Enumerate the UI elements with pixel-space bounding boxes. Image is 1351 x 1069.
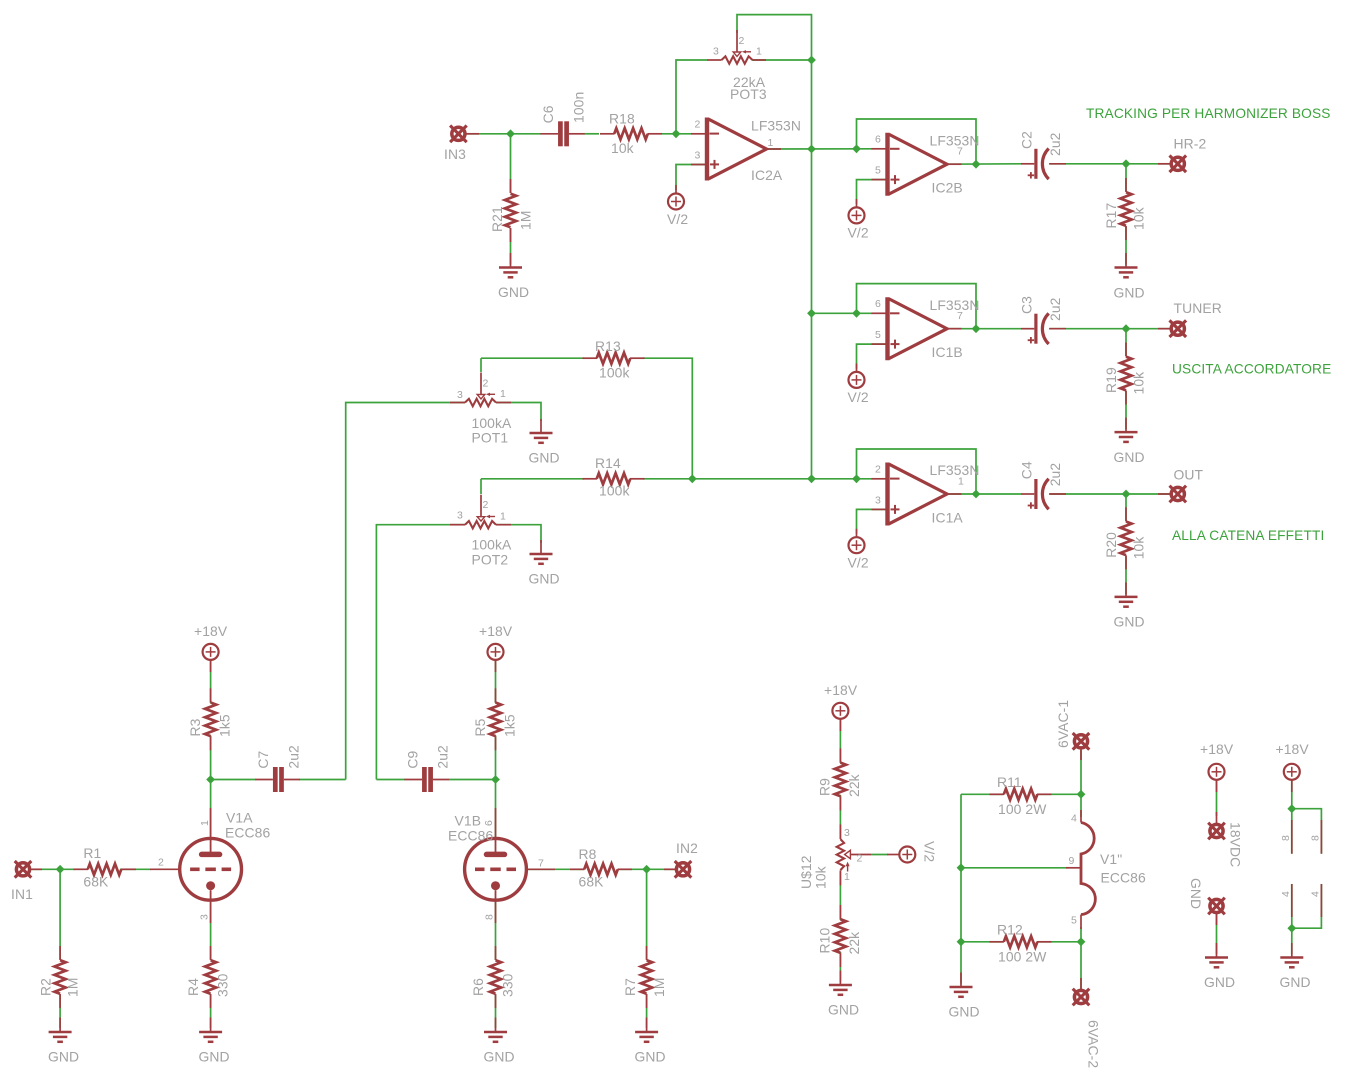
- junction V1A plate node: [206, 775, 215, 784]
- svg-text:+18V: +18V: [1200, 741, 1234, 757]
- svg-text:2u2: 2u2: [434, 745, 450, 769]
- supply +18V for V1B: [479, 623, 513, 672]
- svg-text:3: 3: [695, 150, 701, 162]
- svg-text:1M: 1M: [518, 211, 534, 231]
- svg-text:2: 2: [158, 856, 164, 868]
- wire IC2B +input from V/2: [857, 180, 888, 204]
- wire POT3 pin1 to output bus: [752, 59, 812, 61]
- svg-text:R7: R7: [622, 978, 638, 996]
- junction IC1B inverting input: [852, 309, 861, 318]
- svg-text:R2: R2: [38, 978, 54, 996]
- junction IC1A bus: [807, 474, 816, 483]
- svg-text:3: 3: [844, 827, 850, 839]
- wire R19 branch: [1125, 329, 1127, 429]
- junction R12 / heater pin5: [1077, 937, 1086, 946]
- svg-text:C3: C3: [1019, 296, 1035, 314]
- svg-text:R9: R9: [817, 778, 833, 796]
- pad 18VDC: [1208, 812, 1243, 867]
- junction at IN3 / R21: [506, 129, 515, 138]
- resistor R2 1M: [38, 946, 81, 1008]
- wire R12 node to 6VAC-2 pad: [1080, 942, 1082, 990]
- wire R2 branch: [59, 869, 61, 1028]
- svg-text:6VAC-2: 6VAC-2: [1086, 1020, 1102, 1068]
- svg-text:68K: 68K: [83, 873, 109, 889]
- pin 4 stub left: [1280, 884, 1292, 917]
- svg-text:C4: C4: [1019, 461, 1035, 479]
- ground GND below R7: [635, 1018, 666, 1065]
- svg-text:R12: R12: [997, 922, 1023, 938]
- wire POT2 column to C9: [376, 779, 405, 781]
- wire R3 to plate node: [210, 736, 212, 780]
- svg-text:1M: 1M: [65, 978, 81, 998]
- svg-text:2: 2: [483, 378, 489, 390]
- wire POT2 pin1 to ground: [496, 525, 541, 543]
- svg-text:C6: C6: [540, 105, 556, 123]
- junction IC1A output: [972, 490, 981, 499]
- svg-text:+18V: +18V: [1276, 741, 1310, 757]
- ground GND heater: [949, 973, 980, 1020]
- junction IC2A output on bus: [807, 145, 816, 154]
- capacitor C4 2u2: [1019, 461, 1067, 509]
- wire heater pin5: [1080, 927, 1082, 942]
- wire R13 row: [481, 358, 692, 479]
- wire POT3 feedback loop: [737, 15, 812, 479]
- svg-text:IC2A: IC2A: [751, 167, 783, 183]
- wire +18V to R3: [210, 660, 212, 703]
- resistor R9 22k: [817, 748, 863, 810]
- svg-text:22k: 22k: [846, 774, 862, 797]
- wire heater left rail: [960, 794, 962, 983]
- svg-text:R8: R8: [579, 846, 597, 862]
- wire bus link IC1A: [812, 478, 873, 480]
- ground GND POT1: [529, 419, 560, 466]
- wire plate node to C7: [211, 779, 256, 781]
- wire 6VAC-1 pad to R11 node: [1080, 750, 1082, 794]
- net label USCITA ACCORDATORE: [1172, 362, 1331, 377]
- svg-text:R19: R19: [1103, 367, 1119, 393]
- svg-text:R11: R11: [997, 774, 1022, 790]
- svg-text:TUNER: TUNER: [1174, 300, 1222, 316]
- svg-text:V1A: V1A: [226, 810, 253, 826]
- triode V1B ECC86: [448, 808, 555, 923]
- wire plate node to V1B anode: [495, 780, 497, 839]
- ground GND POT2: [529, 540, 560, 587]
- resistor R13 100k: [583, 338, 645, 381]
- wire trimmer wiper to V/2: [871, 854, 888, 856]
- op-amp IC2B LF353N: [872, 132, 980, 195]
- capacitor C9 2u2: [404, 745, 450, 792]
- svg-text:100n: 100n: [570, 92, 586, 123]
- wire POT2 wiper riser: [480, 479, 482, 494]
- svg-text:100kA: 100kA: [472, 537, 513, 553]
- svg-text:3: 3: [457, 389, 463, 401]
- svg-text:2u2: 2u2: [1047, 297, 1063, 321]
- wire R12 row: [961, 941, 1081, 943]
- svg-text:10k: 10k: [1131, 207, 1147, 230]
- svg-text:POT1: POT1: [472, 430, 509, 446]
- svg-text:6VAC-1: 6VAC-1: [1055, 700, 1071, 748]
- svg-text:LF353N: LF353N: [930, 297, 980, 313]
- wire IC1B output to C3: [948, 328, 1022, 330]
- wire V1B cathode to R6: [495, 900, 497, 1028]
- wire R7 branch: [646, 869, 648, 1028]
- wire C7 to POT1 column: [299, 779, 346, 781]
- resistor R6 330: [470, 946, 516, 1008]
- svg-text:ECC86: ECC86: [448, 828, 493, 844]
- svg-text:+18V: +18V: [824, 682, 858, 698]
- svg-text:GND: GND: [1188, 878, 1204, 909]
- op-amp IC1A LF353N: [872, 462, 980, 525]
- capacitor C3 2u2: [1019, 296, 1067, 344]
- svg-text:4: 4: [1071, 813, 1077, 825]
- svg-text:R20: R20: [1103, 532, 1119, 558]
- pad HR-2: [1158, 135, 1206, 172]
- resistor R14 100k: [583, 455, 645, 499]
- svg-text:5: 5: [875, 329, 881, 341]
- wire R21 branch to ground: [510, 134, 512, 265]
- resistor R19 10k: [1103, 343, 1147, 405]
- svg-text:6: 6: [483, 820, 495, 826]
- svg-text:+18V: +18V: [194, 623, 228, 639]
- junction IC2B inverting input: [852, 144, 861, 153]
- junction HR-2 / R17: [1122, 159, 1131, 168]
- svg-text:R10: R10: [817, 928, 833, 954]
- svg-text:IC1A: IC1A: [932, 509, 964, 525]
- junction R11 / heater pin4: [1077, 790, 1086, 799]
- svg-text:HR-2: HR-2: [1174, 135, 1207, 151]
- ground GND below R21: [498, 253, 529, 300]
- junction IC1A inverting input: [852, 474, 861, 483]
- wire IC2B feedback loop: [857, 119, 977, 164]
- svg-text:GND: GND: [1114, 614, 1145, 630]
- svg-text:GND: GND: [828, 1002, 859, 1018]
- resistor R18 10k: [600, 111, 662, 157]
- svg-text:R21: R21: [489, 206, 505, 232]
- junction IC supply pins 8: [1287, 804, 1296, 813]
- wire R10 to ground: [839, 952, 841, 982]
- supply +18V for 18VDC pad: [1200, 741, 1234, 792]
- junction IC2B output: [972, 160, 981, 169]
- svg-text:3: 3: [875, 494, 881, 506]
- svg-text:18VDC: 18VDC: [1228, 822, 1244, 867]
- wire R11 row: [961, 793, 1081, 795]
- wire POT1 wiper riser: [480, 358, 482, 372]
- junction V1B plate node: [491, 775, 500, 784]
- svg-text:2: 2: [875, 464, 881, 476]
- resistor R1 68K: [74, 845, 137, 889]
- ground GND below R2: [48, 1018, 79, 1065]
- junction R8 / R7: [642, 865, 651, 874]
- wire POT1 pin1 to ground: [496, 403, 541, 422]
- supply +18V for bias chain: [824, 682, 858, 731]
- svg-text:R13: R13: [595, 338, 621, 354]
- wire IC1B feedback loop: [857, 284, 977, 329]
- wire IC1B +input from V/2: [857, 344, 888, 368]
- wire V1A cathode to R4: [210, 900, 212, 1028]
- resistor R4 330: [185, 946, 231, 1008]
- resistor R8 68K: [570, 846, 632, 889]
- svg-text:V/2: V/2: [667, 211, 688, 227]
- wire C3 to TUNER pad: [1049, 328, 1170, 330]
- svg-text:1k5: 1k5: [217, 714, 233, 737]
- supply V/2 for IC2B: [848, 199, 869, 241]
- pad GND input: [1188, 878, 1225, 925]
- svg-text:TRACKING PER HARMONIZER BOSS: TRACKING PER HARMONIZER BOSS: [1086, 106, 1331, 121]
- net label TRACKING PER HARMONIZER BOSS: [1086, 106, 1331, 121]
- svg-text:100 2W: 100 2W: [998, 801, 1047, 817]
- svg-text:GND: GND: [1114, 284, 1145, 300]
- op-amp IC1B LF353N: [872, 297, 980, 360]
- net label ALLA CATENA EFFETTI: [1172, 528, 1324, 543]
- svg-text:V/2: V/2: [922, 841, 938, 862]
- wire trimmer to R10: [839, 871, 841, 920]
- svg-text:GND: GND: [635, 1049, 666, 1065]
- supply +18V for IC power: [1276, 741, 1310, 792]
- svg-text:1: 1: [500, 511, 506, 523]
- resistor R20 10k: [1103, 507, 1147, 569]
- junction IC1B output: [972, 324, 981, 333]
- wire bus link IC1B: [812, 312, 873, 314]
- svg-text:1: 1: [844, 871, 850, 883]
- resistor R10 22k: [817, 905, 863, 967]
- svg-text:V1": V1": [1100, 851, 1122, 867]
- svg-text:3: 3: [199, 914, 211, 920]
- wire R9 to trimmer: [839, 795, 841, 838]
- wire POT2 pin3 to C9 column: [376, 525, 465, 780]
- pad IN3: [444, 126, 479, 163]
- pad IN1: [11, 861, 42, 902]
- svg-text:R17: R17: [1103, 203, 1119, 229]
- svg-text:ECC86: ECC86: [1101, 870, 1146, 886]
- resistor R5 1k5: [472, 688, 518, 750]
- svg-text:GND: GND: [498, 284, 529, 300]
- supply V/2 for IC2A: [667, 185, 688, 227]
- svg-text:GND: GND: [529, 571, 560, 587]
- svg-text:R18: R18: [609, 111, 635, 127]
- svg-text:2: 2: [857, 853, 863, 865]
- junction IC2A inverting input: [672, 129, 681, 138]
- svg-text:2u2: 2u2: [285, 745, 301, 769]
- wire IC1A +input from V/2: [857, 509, 888, 533]
- supply V/2 from trimmer: [887, 841, 938, 863]
- svg-text:5: 5: [875, 165, 881, 177]
- ground GND below R20: [1114, 582, 1145, 629]
- svg-text:IN1: IN1: [11, 886, 33, 902]
- pad 6VAC-2: [1073, 978, 1102, 1068]
- svg-text:GND: GND: [48, 1049, 79, 1065]
- svg-text:100 2W: 100 2W: [998, 949, 1047, 965]
- pin 8 stub left: [1280, 820, 1292, 854]
- svg-text:1: 1: [756, 45, 762, 57]
- triode V1A ECC86: [150, 808, 270, 923]
- pad TUNER: [1158, 300, 1222, 337]
- wire plate node to V1A anode: [210, 780, 212, 839]
- svg-text:LF353N: LF353N: [930, 132, 980, 148]
- junction R12 left: [957, 937, 966, 946]
- svg-text:V/2: V/2: [848, 389, 869, 405]
- wire +18V to R9: [839, 719, 841, 763]
- svg-text:V/2: V/2: [848, 225, 869, 241]
- wire IC2A inverting node up to POT3 pin3: [676, 60, 707, 134]
- svg-text:10k: 10k: [1131, 537, 1147, 560]
- svg-text:100k: 100k: [599, 365, 630, 381]
- svg-text:6: 6: [875, 134, 881, 146]
- pin 4 stub right: [1310, 884, 1322, 917]
- ground GND below R4: [199, 1018, 230, 1065]
- wire GND pad to ground: [1216, 913, 1218, 954]
- wire IC supply pins 4 to ground: [1292, 884, 1322, 954]
- svg-text:GND: GND: [484, 1049, 515, 1065]
- ground GND right column 1: [1204, 943, 1235, 990]
- capacitor C7 2u2: [255, 745, 301, 792]
- svg-text:GND: GND: [1114, 449, 1145, 465]
- wire C9 to V1B plate node: [449, 779, 496, 781]
- svg-text:330: 330: [215, 973, 231, 997]
- wire C4 to OUT pad: [1049, 493, 1170, 495]
- svg-text:ALLA CATENA EFFETTI: ALLA CATENA EFFETTI: [1172, 528, 1324, 543]
- pin 8 stub right: [1310, 820, 1322, 854]
- wire IN1 to V1A grid: [29, 868, 151, 870]
- svg-text:POT2: POT2: [472, 552, 509, 568]
- pad OUT: [1158, 467, 1204, 503]
- svg-text:1: 1: [199, 820, 211, 826]
- svg-text:IC2B: IC2B: [932, 180, 963, 196]
- ground GND right column 2: [1280, 943, 1311, 990]
- svg-text:R14: R14: [595, 455, 621, 471]
- wire R5 to plate node: [495, 736, 497, 780]
- svg-text:LF353N: LF353N: [751, 117, 801, 133]
- svg-text:9: 9: [1069, 855, 1075, 867]
- svg-text:2: 2: [483, 499, 489, 511]
- op-amp IC2A LF353N: [691, 117, 801, 183]
- svg-text:GND: GND: [949, 1004, 980, 1020]
- wire C2 to HR-2 pad: [1049, 163, 1170, 165]
- svg-text:OUT: OUT: [1174, 467, 1204, 483]
- svg-text:GND: GND: [529, 450, 560, 466]
- resistor R11 100 2W: [990, 774, 1052, 817]
- svg-text:R4: R4: [185, 978, 201, 996]
- wire R20 branch: [1125, 494, 1127, 594]
- svg-text:C9: C9: [404, 750, 420, 768]
- svg-text:100k: 100k: [599, 483, 630, 499]
- wire POT1 pin3 to C7 column: [346, 403, 465, 780]
- resistor R17 10k: [1103, 178, 1147, 240]
- resistor R12 100 2W: [990, 922, 1052, 965]
- wire IC2B output to C2: [948, 163, 1022, 165]
- svg-text:1M: 1M: [651, 978, 667, 998]
- pad IN2: [664, 840, 698, 878]
- wire +18V to IC supply pins 8: [1292, 780, 1322, 854]
- svg-text:68K: 68K: [579, 873, 605, 889]
- junction TUNER / R19: [1122, 324, 1131, 333]
- wire V1B output row to IN2: [526, 868, 675, 870]
- wire +18V to R5: [495, 660, 497, 703]
- potentiometer POT1 100kA: [450, 373, 512, 446]
- supply +18V for V1A: [194, 623, 228, 672]
- heater V1" ECC86: [1066, 810, 1146, 929]
- svg-text:GND: GND: [1280, 974, 1311, 990]
- svg-text:2u2: 2u2: [1047, 132, 1063, 156]
- svg-text:POT3: POT3: [730, 86, 767, 102]
- svg-text:+18V: +18V: [479, 623, 513, 639]
- svg-text:3: 3: [713, 45, 719, 57]
- svg-text:330: 330: [500, 973, 516, 997]
- svg-text:3: 3: [457, 510, 463, 522]
- potentiometer POT2 100kA: [450, 495, 512, 568]
- wire IC1A feedback loop: [857, 449, 977, 494]
- wire R17 branch: [1125, 164, 1127, 265]
- potentiometer POT3 22kA: [707, 30, 767, 102]
- svg-text:IN3: IN3: [444, 146, 466, 162]
- svg-text:2u2: 2u2: [1047, 463, 1063, 487]
- wire IC1A output to C4: [948, 493, 1022, 495]
- capacitor C2 2u2: [1019, 131, 1067, 179]
- junction IN1 / R2: [56, 865, 65, 874]
- svg-text:GND: GND: [1204, 974, 1235, 990]
- junction IC1B bus: [807, 309, 816, 318]
- ground GND below R19: [1114, 418, 1145, 465]
- svg-text:C7: C7: [255, 750, 271, 768]
- svg-text:1: 1: [768, 137, 774, 149]
- svg-text:C2: C2: [1019, 131, 1035, 149]
- svg-text:IC1B: IC1B: [932, 344, 963, 360]
- trimmer U$12 10k: [798, 824, 871, 889]
- supply V/2 for IC1A: [848, 529, 869, 571]
- junction IC supply pins 4: [1287, 924, 1296, 933]
- ground GND below R10: [828, 971, 859, 1018]
- svg-text:8: 8: [1280, 835, 1292, 841]
- svg-text:V/2: V/2: [848, 555, 869, 571]
- svg-text:V1B: V1B: [455, 813, 482, 829]
- wire IC2A output row: [767, 148, 873, 150]
- ground GND below R17: [1114, 253, 1145, 300]
- svg-text:8: 8: [1310, 835, 1322, 841]
- svg-text:8: 8: [484, 914, 496, 920]
- wire IN3 input row: [464, 133, 691, 135]
- svg-text:4: 4: [1310, 891, 1322, 897]
- svg-text:USCITA ACCORDATORE: USCITA ACCORDATORE: [1172, 362, 1331, 377]
- wire IC2A +input from V/2: [676, 165, 707, 191]
- resistor R21: [489, 179, 534, 242]
- resistor R7 1M: [622, 946, 667, 1008]
- svg-text:LF353N: LF353N: [930, 462, 980, 478]
- svg-text:5: 5: [1071, 914, 1077, 926]
- junction POT3 pin1 on bus: [807, 56, 816, 65]
- resistor R3 1k5: [187, 688, 233, 750]
- wire heater center tap: [961, 867, 1068, 869]
- svg-text:R5: R5: [472, 718, 488, 736]
- svg-text:GND: GND: [199, 1049, 230, 1065]
- svg-text:IN2: IN2: [676, 840, 698, 856]
- junction OUT / R20: [1122, 490, 1131, 499]
- svg-text:ECC86: ECC86: [225, 825, 270, 841]
- svg-text:22k: 22k: [846, 932, 862, 955]
- junction heater tap: [957, 863, 966, 872]
- svg-text:10k: 10k: [813, 866, 829, 889]
- wire heater pin4: [1080, 794, 1082, 817]
- ground GND below R6: [484, 1018, 515, 1065]
- wire +18V to 18VDC pad: [1216, 780, 1218, 816]
- junction R13/R14: [688, 474, 697, 483]
- svg-text:10k: 10k: [1131, 372, 1147, 395]
- svg-text:2: 2: [739, 35, 745, 47]
- svg-text:6: 6: [875, 298, 881, 310]
- svg-text:4: 4: [1280, 891, 1292, 897]
- supply V/2 for IC1B: [848, 364, 869, 406]
- svg-text:10k: 10k: [611, 140, 634, 156]
- svg-text:7: 7: [538, 857, 544, 869]
- capacitor C6 100n: [540, 92, 586, 147]
